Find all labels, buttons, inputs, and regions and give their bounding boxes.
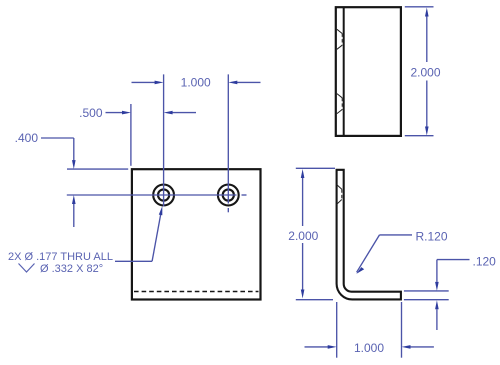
dimension 2.000 top view arrowheads — [425, 8, 429, 136]
front view outline — [132, 169, 261, 299]
dimension .500 arrowheads — [122, 111, 173, 115]
dimension R.120 leader — [357, 235, 412, 272]
dimension 2.000 side view arrowheads — [301, 169, 305, 299]
horizontal centerline through holes — [67, 194, 247, 196]
dimension 2.000 top view — [405, 7, 434, 136]
dimension 1.000 top arrowheads — [155, 81, 238, 85]
front view bend hidden line — [134, 291, 259, 293]
top view hole 2 hidden countersink — [337, 94, 342, 114]
svg-text:1.000: 1.000 — [181, 76, 211, 90]
dimension .120 arrowheads — [435, 282, 439, 309]
countersink symbol — [19, 264, 35, 273]
dimension .500 — [106, 104, 197, 166]
hole 2 thru circle — [223, 189, 234, 200]
svg-text:Ø .332 X 82°: Ø .332 X 82° — [40, 263, 103, 275]
hole 2 countersink circle — [218, 185, 239, 206]
svg-text:.120: .120 — [473, 255, 497, 269]
svg-text:2X Ø .177 THRU ALL: 2X Ø .177 THRU ALL — [8, 251, 113, 263]
side view hole hidden countersink — [337, 185, 342, 205]
hole callout leader — [115, 210, 162, 261]
dimension 1.000 top — [132, 81, 261, 83]
svg-text:2.000: 2.000 — [410, 65, 440, 79]
dimension .400 — [41, 138, 128, 227]
side view L profile outline — [337, 170, 401, 300]
dimension 1.000 bottom — [305, 302, 434, 358]
hole 1 vertical centerline — [163, 74, 165, 206]
dimension .400 arrowheads — [72, 160, 76, 204]
top view inner edge line — [343, 7, 345, 136]
top view hole 1 hidden countersink — [337, 29, 342, 49]
top view outline — [336, 7, 401, 136]
hole 2 vertical centerline — [227, 74, 229, 212]
dimension 1.000 bottom arrowheads — [328, 345, 411, 349]
svg-text:.500: .500 — [79, 106, 103, 120]
dimension R.120 arrowhead — [356, 267, 364, 274]
dimension .120 — [404, 260, 470, 330]
hole 1 thru circle — [158, 189, 169, 200]
svg-text:2.000: 2.000 — [288, 229, 318, 243]
hole callout leader arrowhead — [159, 206, 163, 215]
svg-text:1.000: 1.000 — [354, 341, 384, 355]
dimension 2.000 side view — [296, 168, 335, 299]
svg-text:R.120: R.120 — [416, 230, 448, 244]
svg-text:.400: .400 — [15, 131, 39, 145]
hole 1 countersink circle — [153, 185, 174, 206]
